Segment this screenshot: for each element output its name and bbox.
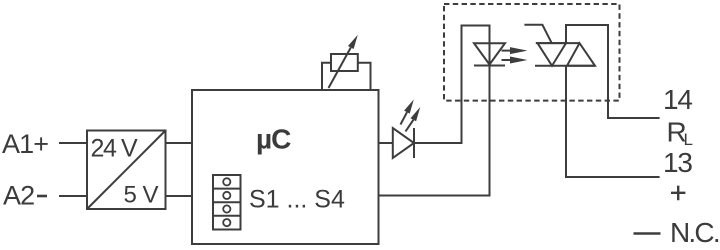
svg-text:S1 ... S4: S1 ... S4 bbox=[249, 186, 345, 214]
potentiometer R1 left leg bbox=[322, 63, 331, 90]
wire A2- to power supply bbox=[59, 195, 87, 197]
LED D1 cathode bar bbox=[413, 128, 415, 158]
optocoupler dashed enclosure bbox=[444, 4, 620, 101]
svg-text:13: 13 bbox=[663, 147, 692, 178]
triac gate stub bbox=[524, 25, 551, 43]
DIP switch button circles bbox=[223, 178, 230, 226]
LED D1 triangle bbox=[393, 128, 414, 158]
polarity label + bbox=[671, 186, 685, 201]
svg-text:µC: µC bbox=[256, 124, 291, 155]
potentiometer R1 adjustment arrow bbox=[329, 48, 351, 89]
wire uC to LED bbox=[379, 142, 393, 144]
optocoupler emitter diode triangle bbox=[474, 43, 505, 64]
triac bottom bar bbox=[535, 65, 595, 67]
svg-text:A2: A2 bbox=[3, 181, 34, 211]
optocoupler light arrow 2 bbox=[502, 59, 513, 61]
LED D1 light arrow 1 bbox=[401, 112, 408, 124]
triac right triangle bbox=[567, 43, 595, 66]
triac top bar bbox=[536, 42, 580, 44]
potentiometer R1 right leg bbox=[358, 63, 371, 90]
diagonal of power supply box bbox=[87, 131, 166, 210]
svg-text:5 V: 5 V bbox=[123, 182, 158, 209]
svg-text:14: 14 bbox=[663, 84, 692, 115]
svg-text:A1+: A1+ bbox=[2, 129, 48, 159]
power supply box 24V/5V bbox=[87, 131, 166, 210]
wire A1+ to power supply bbox=[59, 142, 87, 144]
svg-text:24 V: 24 V bbox=[91, 135, 139, 163]
wire triac MT1 to terminal 13 bbox=[566, 66, 660, 177]
LED D1 light arrow 2 bbox=[406, 120, 414, 132]
wire supply to uC (top) bbox=[166, 142, 193, 144]
N.C. dash bbox=[634, 232, 661, 235]
microcontroller box U1 bbox=[192, 90, 379, 244]
triac left triangle bbox=[538, 43, 567, 66]
wire supply to uC (bottom) bbox=[166, 195, 193, 197]
potentiometer R1 body bbox=[331, 54, 358, 71]
optocoupler emitter diode bar bbox=[474, 65, 505, 67]
wire LED to optocoupler input bbox=[379, 26, 490, 196]
DIP switch S1-S4 body bbox=[213, 175, 241, 230]
svg-text:N.C.: N.C. bbox=[670, 217, 719, 248]
optocoupler light arrow 1 bbox=[502, 50, 513, 52]
DIP switch cell dividers bbox=[213, 189, 241, 216]
wire triac MT2 to terminal 14 bbox=[566, 25, 660, 118]
